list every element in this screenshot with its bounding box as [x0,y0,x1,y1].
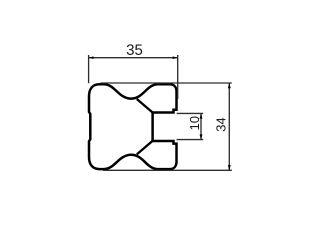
dim 34 extension line bottom [103,169,232,171]
dim 34 extension line top [101,82,232,84]
dim 10 extension line bottom [177,139,204,141]
dim 10 arrow bottom [200,134,203,139]
dim 35 arrow right [173,56,178,59]
dim 34 text [216,118,225,132]
dim 35 extension line left [88,55,90,83]
dim 34 line [228,83,230,170]
dim 35 line [89,57,178,59]
dim 35 text [127,44,142,55]
dim 35 extension line right [177,55,179,99]
inner edge upper diagonal [137,99,153,113]
dim 34 arrow top [228,83,231,88]
dim 10 text [190,116,199,129]
dim 10 line [200,113,202,139]
dim 10 extension line top [177,112,204,114]
inner edge lower diagonal [137,141,153,155]
dim 34 arrow bottom [228,165,231,170]
profile outline [89,84,177,169]
dim 35 arrow left [89,56,94,59]
dim 10 arrow top [200,114,203,119]
